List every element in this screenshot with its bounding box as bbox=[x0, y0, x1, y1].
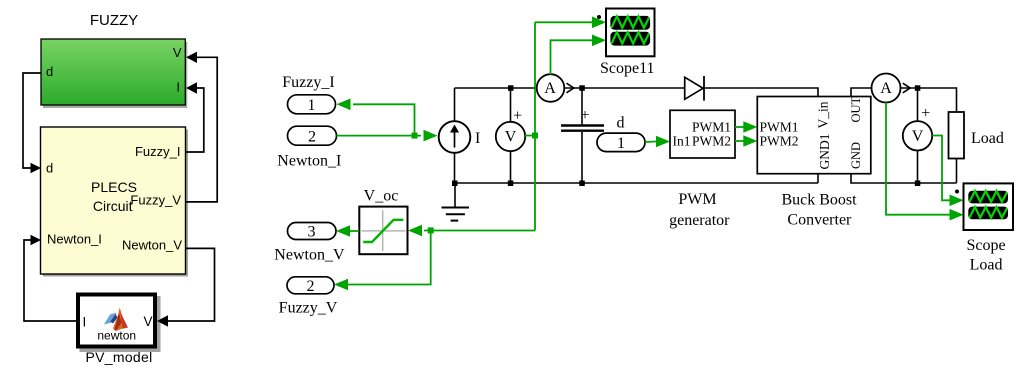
svg-text:3: 3 bbox=[308, 224, 316, 241]
svg-text:A: A bbox=[880, 80, 892, 97]
wire A1 green stub to scope11 input2 bbox=[551, 40, 593, 74]
wire V2 green stub to scope load input1 bbox=[932, 136, 950, 201]
arrow into port 2 Fuzzy_V bbox=[334, 279, 348, 291]
svg-text:1: 1 bbox=[308, 97, 316, 114]
arrow into PLECS Newton_I bbox=[31, 235, 42, 246]
arrow into V_oc bbox=[408, 225, 422, 237]
junction V1 bottom bbox=[508, 181, 514, 187]
arrow into current source bbox=[424, 130, 438, 142]
wire V2 top stem bbox=[917, 88, 919, 121]
svg-text:V_in: V_in bbox=[816, 101, 831, 128]
svg-text:PV_model: PV_model bbox=[86, 349, 153, 365]
svg-text:Newton_I: Newton_I bbox=[47, 232, 102, 247]
flow arrow after A1 bbox=[567, 83, 574, 93]
svg-text:PWM1: PWM1 bbox=[692, 120, 731, 135]
wire V_oc out bbox=[350, 230, 359, 232]
svg-text:Newton_I: Newton_I bbox=[277, 153, 341, 170]
wire d -> PWM generator bbox=[645, 141, 656, 144]
svg-text:+: + bbox=[513, 107, 522, 124]
diode D1 bbox=[685, 76, 704, 101]
svg-text:Newton_V: Newton_V bbox=[122, 238, 182, 253]
svg-text:V: V bbox=[143, 314, 152, 329]
arrow into port 3 bbox=[336, 225, 350, 237]
wire Fuzzy_I loop bbox=[186, 88, 204, 152]
current source I1 bbox=[439, 121, 481, 153]
svg-text:A: A bbox=[544, 80, 556, 97]
wire PV I -> PLECS Newton_I bbox=[24, 240, 76, 321]
wire V1 green stub bbox=[525, 135, 535, 137]
svg-text:PWM: PWM bbox=[678, 191, 716, 208]
arrow into PWM generator In1 bbox=[656, 136, 670, 148]
arrow scope load input2 bbox=[950, 209, 964, 221]
wire green to port 2 Fuzzy_V bbox=[348, 231, 431, 285]
port oval 2 Newton_I bbox=[288, 126, 337, 145]
svg-text:V: V bbox=[173, 45, 182, 60]
svg-text:+: + bbox=[580, 107, 589, 124]
svg-text:2: 2 bbox=[308, 128, 316, 145]
junction bottom current source bbox=[452, 181, 458, 187]
wire port2 -> current source bbox=[337, 135, 422, 137]
svg-text:Newton_V: Newton_V bbox=[274, 247, 345, 264]
wire V1 top stem bbox=[510, 88, 512, 122]
svg-text:GND: GND bbox=[849, 142, 863, 169]
wire V1 bottom stem bbox=[510, 151, 512, 183]
svg-text:V_oc: V_oc bbox=[364, 188, 399, 205]
svg-text:PWM1: PWM1 bbox=[760, 120, 799, 135]
block PWM generator bbox=[670, 110, 735, 158]
svg-text:Fuzzy_I: Fuzzy_I bbox=[282, 74, 334, 91]
block V_oc saturation bbox=[359, 207, 407, 255]
flow arrow after A2 bbox=[903, 83, 910, 93]
capacitor C1 bbox=[561, 88, 604, 183]
wire V2 bottom stem bbox=[917, 151, 919, 184]
scope Scope Load bbox=[955, 183, 1013, 230]
svg-text:newton: newton bbox=[97, 329, 136, 343]
svg-text:I: I bbox=[176, 80, 180, 95]
svg-text:GND1: GND1 bbox=[817, 134, 832, 170]
wire d: FUZZY d -> PLECS d bbox=[23, 73, 41, 168]
wire top rail right of diode bbox=[704, 88, 818, 97]
wire top rail mid bbox=[564, 87, 685, 89]
svg-text:Fuzzy_V: Fuzzy_V bbox=[279, 299, 338, 316]
arrow scope11 input1 bbox=[592, 17, 606, 29]
wire current source bottom stem bbox=[454, 153, 456, 183]
arrow into FUZZY V bbox=[186, 52, 197, 63]
scope Scope11 bbox=[597, 9, 655, 57]
svg-text:d: d bbox=[46, 161, 53, 176]
junction capacitor bottom bbox=[579, 181, 585, 187]
arrow PWM2 into converter bbox=[743, 135, 757, 147]
wire OUT stub to A2 bbox=[851, 88, 872, 97]
svg-text:Scope11: Scope11 bbox=[600, 60, 655, 77]
svg-text:Load: Load bbox=[970, 257, 1003, 274]
ground bbox=[442, 183, 470, 221]
junction V2 bottom bbox=[915, 181, 921, 187]
svg-text:In1: In1 bbox=[673, 134, 691, 149]
wire PWM1 out bbox=[735, 126, 744, 128]
port oval 3 Newton_V bbox=[288, 223, 337, 240]
arrow scope load input1 bbox=[950, 195, 964, 207]
svg-text:Load: Load bbox=[971, 130, 1004, 147]
wire bottom rail left bbox=[455, 182, 819, 184]
wire GND stub bbox=[851, 174, 957, 183]
wire port1 tap bbox=[353, 104, 415, 135]
svg-text:Buck Boost: Buck Boost bbox=[781, 191, 857, 208]
block PV newton (white) bbox=[78, 295, 161, 353]
wire GND1 stub bbox=[817, 174, 819, 183]
wire Newton_V -> PV V bbox=[166, 248, 215, 321]
svg-text:+: + bbox=[921, 105, 930, 122]
arrow PWM1 into converter bbox=[743, 121, 757, 133]
port oval 2 Fuzzy_V bbox=[287, 277, 334, 294]
svg-text:Fuzzy_I: Fuzzy_I bbox=[135, 144, 181, 159]
block FUZZY (green) bbox=[41, 39, 187, 108]
svg-text:V: V bbox=[505, 129, 517, 146]
ammeter A1 bbox=[537, 74, 565, 102]
svg-text:Converter: Converter bbox=[787, 211, 852, 228]
junction V2 top bbox=[915, 85, 921, 91]
svg-text:OUT: OUT bbox=[849, 96, 863, 122]
voltmeter V2 bbox=[903, 105, 932, 151]
wire green V_oc feed bbox=[424, 230, 535, 232]
wire A2 green stub to scope load input2 bbox=[886, 103, 950, 215]
matlab logo bbox=[104, 308, 128, 332]
junction green V1 port bbox=[532, 133, 538, 139]
wire top rail left bbox=[455, 87, 537, 89]
wire current source top stem bbox=[454, 88, 456, 121]
wire green measurement bus vertical bbox=[534, 22, 536, 230]
svg-text:V: V bbox=[912, 128, 924, 145]
port oval 1 Fuzzy_I bbox=[288, 95, 336, 114]
block Buck Boost Converter bbox=[757, 96, 871, 173]
svg-text:Circuit: Circuit bbox=[93, 198, 133, 214]
wire top rail right bbox=[901, 88, 957, 112]
wire Fuzzy_V loop bbox=[186, 57, 218, 202]
svg-text:PWM2: PWM2 bbox=[760, 134, 799, 149]
ammeter A2 bbox=[872, 74, 901, 103]
svg-text:1: 1 bbox=[617, 135, 625, 152]
arrow scope11 input2 bbox=[592, 35, 606, 47]
svg-text:PWM2: PWM2 bbox=[692, 134, 731, 149]
block PLECS Circuit (yellow) bbox=[41, 127, 189, 277]
junction capacitor top bbox=[579, 85, 585, 91]
svg-text:generator: generator bbox=[669, 212, 730, 229]
arrow into port 1 bbox=[337, 99, 351, 111]
junction V1 top bbox=[508, 85, 514, 91]
wire PWM2 out bbox=[735, 140, 744, 142]
arrow into PV V bbox=[157, 315, 168, 326]
junction green bbox=[412, 133, 418, 139]
svg-text:d: d bbox=[617, 115, 625, 132]
wire green to scope11 input1 bbox=[535, 21, 592, 23]
svg-text:Fuzzy_V: Fuzzy_V bbox=[130, 193, 181, 208]
svg-text:d: d bbox=[46, 64, 53, 79]
svg-text:Scope: Scope bbox=[966, 237, 1005, 254]
svg-text:I: I bbox=[475, 130, 480, 147]
svg-text:FUZZY: FUZZY bbox=[90, 12, 138, 29]
load R1 bbox=[949, 112, 965, 183]
svg-text:2: 2 bbox=[307, 278, 315, 295]
junction green V_oc bbox=[428, 227, 434, 233]
port oval 1 d bbox=[597, 133, 645, 152]
svg-text:I: I bbox=[83, 315, 87, 330]
arrow into PLECS d bbox=[31, 163, 42, 174]
voltmeter V1 bbox=[496, 107, 525, 151]
arrow into FUZZY I bbox=[186, 82, 197, 93]
